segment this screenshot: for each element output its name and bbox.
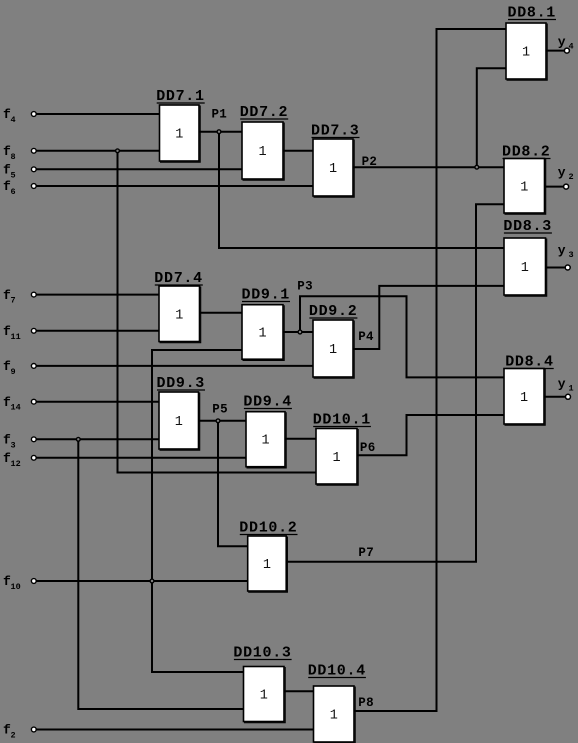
node P6 label	[360, 441, 376, 455]
wire DD7.1 output P1 to DD7.2 input 1	[199, 131, 242, 133]
input terminal f12	[3, 451, 36, 469]
svg-text:y: y	[558, 165, 566, 180]
output terminal y2	[558, 165, 574, 189]
svg-text:3: 3	[11, 440, 16, 450]
gate DD9.4 (OR element "1")	[243, 394, 292, 468]
node P7 label	[358, 546, 374, 560]
input terminal f9	[3, 359, 36, 377]
wire f11 to DD7.4 input 2	[36, 330, 159, 332]
svg-text:P3: P3	[297, 280, 313, 294]
wire DD9.3 output P5 to DD9.4 input 1	[199, 420, 247, 422]
wire DD8.3 output to y3	[546, 267, 566, 269]
svg-text:P2: P2	[362, 155, 378, 169]
input terminal f3	[3, 433, 36, 451]
wire f4 to DD7.1 input 1	[36, 113, 159, 115]
svg-text:7: 7	[11, 296, 16, 306]
wire DD10.2 output P7 to DD8.2 input 2	[286, 204, 504, 562]
svg-text:y: y	[558, 377, 566, 392]
svg-text:2: 2	[569, 172, 574, 182]
gate DD9.3 (OR element "1")	[157, 375, 206, 450]
wire P5 branch to DD10.2 input 1	[218, 421, 248, 547]
junction f3 branch	[76, 437, 80, 441]
input terminal f4	[3, 107, 36, 125]
junction f10 branch	[150, 579, 154, 583]
input terminal f8	[3, 144, 36, 162]
input terminal f5	[3, 163, 36, 181]
input terminal f14	[3, 395, 36, 413]
gate DD7.3 (OR element "1")	[311, 123, 360, 198]
wire DD8.1 output to y4	[546, 50, 565, 52]
svg-text:1: 1	[330, 709, 338, 724]
junction node P2 branch	[475, 165, 479, 169]
svg-text:1: 1	[258, 145, 266, 160]
gate DD8.1 (OR element "1")	[506, 5, 556, 81]
svg-text:1: 1	[258, 326, 266, 341]
output terminal y1	[558, 377, 574, 400]
wire f6 to DD7.3 input 2	[36, 185, 313, 187]
wire DD7.4 output to DD9.1 input 1	[200, 312, 243, 314]
svg-text:6: 6	[11, 187, 16, 197]
wire f5 to DD7.2 input 2	[36, 168, 242, 170]
input terminal f11	[3, 324, 36, 342]
wire f12 to DD9.4 input 2	[36, 457, 246, 459]
svg-text:1: 1	[261, 434, 269, 449]
wire DD9.1 output to DD9.2 input 1	[283, 331, 313, 333]
input terminal f7	[3, 288, 36, 306]
node P2 label	[362, 155, 378, 169]
wire f8 branch to DD10.1 input 2	[118, 151, 317, 473]
junction node P5	[216, 419, 220, 423]
wire f14 to DD9.3 input 1	[36, 401, 159, 403]
node P8 label	[358, 696, 374, 710]
svg-text:1: 1	[260, 689, 268, 704]
gate DD10.4 (OR element "1")	[308, 663, 366, 743]
svg-text:1: 1	[521, 261, 529, 276]
wire f2 to DD10.4 input 2	[36, 729, 313, 731]
svg-text:14: 14	[11, 403, 21, 413]
svg-text:1: 1	[175, 128, 183, 143]
svg-text:4: 4	[11, 115, 16, 125]
svg-text:1: 1	[520, 180, 528, 195]
svg-text:1: 1	[329, 343, 337, 358]
node P3 label	[297, 280, 313, 294]
svg-text:11: 11	[11, 332, 21, 342]
gate DD9.1 (OR element "1")	[242, 287, 291, 361]
input terminal f6	[3, 179, 36, 197]
gate DD7.4 (OR element "1")	[154, 270, 203, 343]
wire f7 to DD7.4 input 1	[36, 294, 159, 296]
wire f8 to DD7.1 input 2	[36, 150, 159, 152]
svg-text:P7: P7	[358, 546, 374, 560]
wire f10 row	[36, 580, 248, 582]
wire f10 riser to DD9.1 input 2 and DD10.3 input 1	[152, 350, 244, 672]
svg-text:1: 1	[175, 415, 183, 430]
svg-text:1: 1	[520, 391, 528, 406]
wire f3 branch to DD10.3 input 2	[78, 439, 243, 709]
gate DD7.1 (OR element "1")	[156, 88, 205, 162]
wire f9 to DD9.2 input 2	[36, 365, 313, 367]
wire P3 branch to DD8.4 input 1	[300, 296, 504, 377]
svg-text:1: 1	[175, 308, 183, 323]
junction node P1	[217, 130, 221, 134]
wire DD8.2 output to y2	[545, 186, 564, 188]
svg-text:8: 8	[11, 152, 16, 162]
input terminal f10	[3, 574, 36, 592]
svg-text:y: y	[558, 243, 566, 258]
gate DD9.2 (OR element "1")	[309, 303, 358, 378]
svg-text:y: y	[558, 35, 566, 50]
node P1 label	[212, 108, 228, 122]
gate DD10.2 (OR element "1")	[239, 520, 297, 593]
svg-text:12: 12	[11, 459, 21, 469]
gate DD10.3 (OR element "1")	[233, 645, 291, 723]
wire DD9.4 output to DD10.1 input 1	[285, 438, 316, 440]
node P5 label	[212, 403, 228, 417]
svg-text:1: 1	[569, 384, 574, 394]
wire DD7.2 output to DD7.3 input 1	[283, 150, 313, 152]
wire DD9.2 output P4 to DD8.3 input 2	[353, 286, 504, 349]
node P4 label	[358, 330, 374, 344]
wire DD10.4 output P8 to DD8.1 input 1	[354, 29, 506, 711]
svg-text:P5: P5	[212, 403, 228, 417]
wire f3 to DD9.3 input 2	[36, 438, 159, 440]
gate DD7.2 (OR element "1")	[240, 104, 289, 180]
wire P1 branch to DD8.3 input 1	[219, 132, 504, 248]
gate DD8.2 (OR element "1")	[502, 144, 551, 215]
wire DD10.1 output P6 to DD8.4 input 2	[357, 415, 504, 455]
gate DD8.4 (OR element "1")	[504, 354, 554, 426]
junction f8 branch	[116, 149, 120, 153]
wire DD7.3 output P2 to DD8.2 input 1	[353, 166, 504, 168]
gate DD8.3 (OR element "1")	[503, 218, 552, 296]
svg-text:9: 9	[11, 367, 16, 377]
svg-text:1: 1	[522, 46, 530, 61]
output terminal y3	[558, 243, 574, 270]
svg-text:3: 3	[569, 250, 574, 260]
svg-text:2: 2	[11, 731, 16, 741]
svg-text:4: 4	[569, 42, 574, 52]
svg-text:1: 1	[329, 162, 337, 177]
wire P2 branch to DD8.1 input 2	[477, 68, 506, 167]
svg-text:5: 5	[11, 170, 16, 180]
svg-text:P8: P8	[358, 696, 374, 710]
svg-text:1: 1	[332, 451, 340, 466]
svg-text:P4: P4	[358, 330, 374, 344]
gate DD10.1 (OR element "1")	[313, 412, 371, 486]
svg-text:P6: P6	[360, 441, 376, 455]
svg-text:10: 10	[11, 582, 21, 592]
output terminal y4	[558, 35, 574, 54]
wire DD10.3 output to DD10.4 input 1	[284, 690, 314, 692]
svg-text:1: 1	[263, 558, 271, 573]
junction node P3	[298, 330, 302, 334]
wire DD8.4 output to y1	[544, 396, 566, 398]
svg-text:P1: P1	[212, 108, 228, 122]
input terminal f2	[3, 723, 36, 741]
